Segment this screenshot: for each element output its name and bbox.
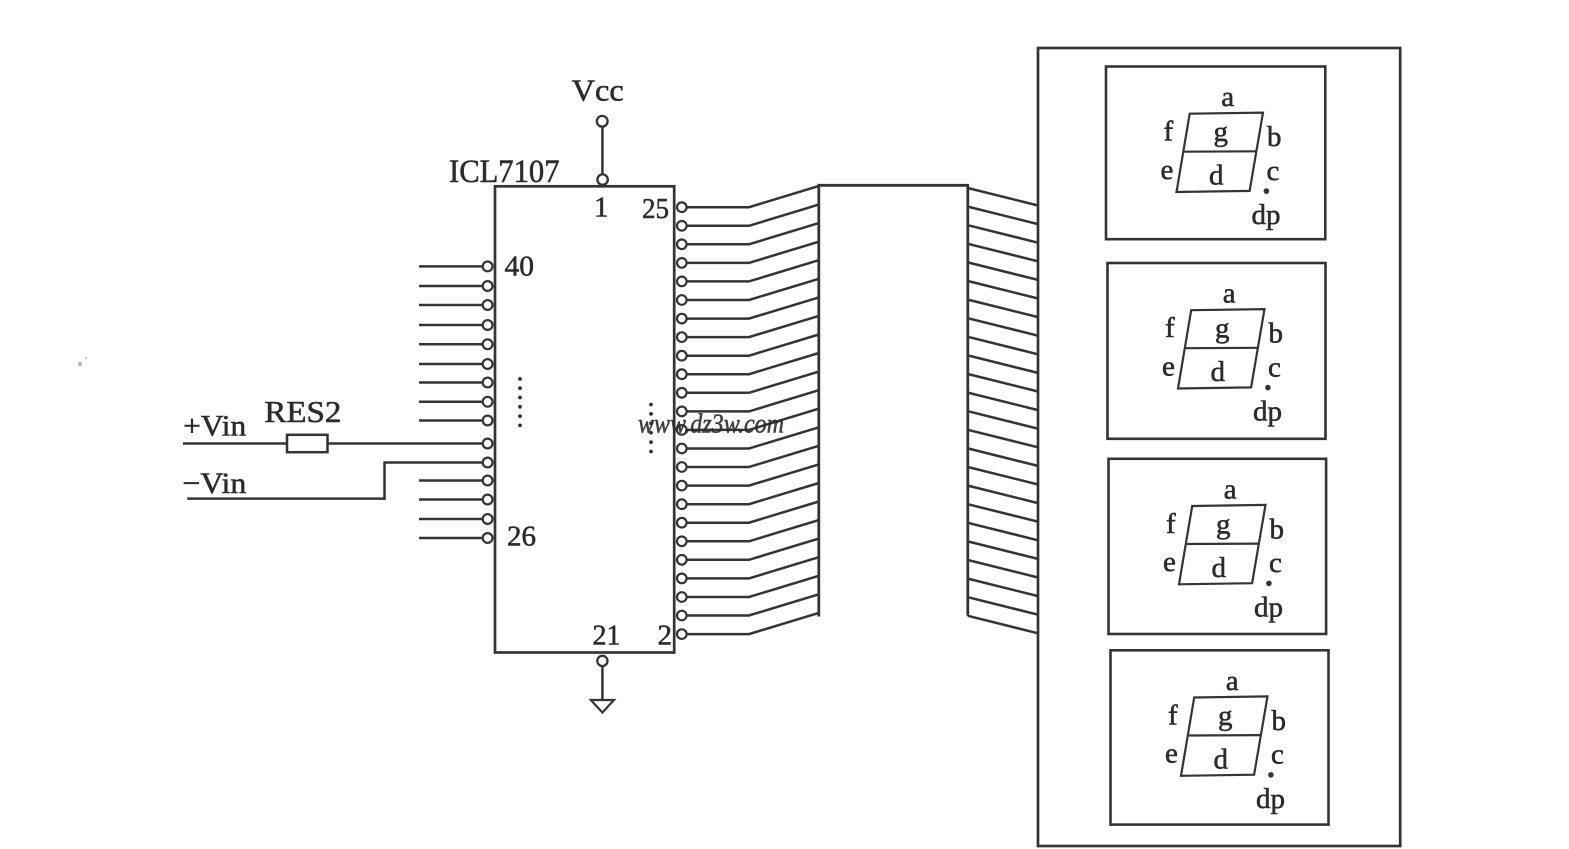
pin 27 terminal circle (left side) bbox=[483, 514, 493, 524]
wire cable to display segment line 1 bbox=[968, 188, 1038, 206]
wire Vcc to pin 1 bbox=[601, 127, 604, 174]
svg-text:25: 25 bbox=[642, 193, 669, 225]
7-segment display DS3 segment g divider bbox=[1187, 542, 1259, 545]
wire cable to display segment line 2 bbox=[968, 207, 1038, 225]
wire stub pin 38 bbox=[419, 304, 483, 307]
svg-text:www.dz3w.com: www.dz3w.com bbox=[638, 409, 784, 439]
svg-text:e: e bbox=[1165, 738, 1178, 770]
svg-text:40: 40 bbox=[505, 251, 535, 283]
wire pin 19 to cable bbox=[687, 297, 819, 318]
svg-text:d: d bbox=[1211, 356, 1226, 388]
7-segment display DS4 segment g divider bbox=[1189, 734, 1261, 737]
7-segment display DS1 segment g divider bbox=[1184, 150, 1256, 153]
svg-text:b: b bbox=[1270, 513, 1285, 545]
svg-text:f: f bbox=[1164, 116, 1174, 148]
pin 36 terminal circle (left side) bbox=[483, 339, 493, 349]
wire cable to display segment line 4 bbox=[968, 244, 1038, 261]
wire stub pin 28 bbox=[419, 498, 483, 501]
wire pin 21 to ground bbox=[601, 666, 604, 700]
wire cable to display segment line 14 bbox=[968, 430, 1038, 448]
pin 32 terminal circle (left side) bbox=[483, 416, 493, 426]
wire stub pin 34 bbox=[419, 381, 483, 384]
svg-text:c: c bbox=[1269, 547, 1282, 579]
resistor R1 (RES2) body bbox=[287, 435, 328, 452]
svg-text:f: f bbox=[1165, 312, 1175, 344]
wire pin 7 to cable bbox=[687, 520, 819, 541]
svg-text:dp: dp bbox=[1254, 591, 1283, 623]
wire cable to display segment line 10 bbox=[968, 355, 1038, 373]
7-segment display DS1 box bbox=[1106, 67, 1325, 240]
svg-text:f: f bbox=[1168, 699, 1178, 731]
wire pin 18 to cable bbox=[687, 316, 819, 337]
svg-text:e: e bbox=[1163, 546, 1176, 578]
svg-text:1: 1 bbox=[594, 192, 609, 224]
svg-text:g: g bbox=[1216, 508, 1231, 540]
7-segment display DS1 segment outline bbox=[1177, 113, 1264, 192]
wire pin 23 to cable bbox=[687, 223, 819, 244]
wire stub pin 33 bbox=[419, 401, 483, 404]
wire pin 15 to cable bbox=[687, 372, 819, 393]
wire pin 9 to cable bbox=[687, 483, 819, 504]
pin 8 terminal circle (right side) bbox=[677, 518, 687, 528]
wire cable to display segment line 7 bbox=[968, 300, 1038, 318]
wire pin 25 to cable bbox=[687, 186, 819, 207]
pin 40 terminal circle (left side) bbox=[483, 262, 493, 272]
ellipsis dots left pin group bbox=[518, 377, 522, 381]
ellipsis dots right pin group bbox=[649, 403, 653, 407]
pin 30 terminal circle (left side) bbox=[483, 458, 493, 468]
wire pin 12 to cable bbox=[687, 427, 819, 448]
svg-text:c: c bbox=[1271, 739, 1284, 771]
pin 3 terminal circle (right side) bbox=[677, 611, 687, 621]
wire pin 4 to cable bbox=[687, 576, 819, 597]
svg-text:dp: dp bbox=[1253, 396, 1282, 428]
svg-text:+Vin: +Vin bbox=[183, 410, 246, 443]
pin 12 terminal circle (right side) bbox=[677, 444, 687, 454]
pin 28 terminal circle (left side) bbox=[483, 495, 493, 505]
wire cable to display segment line 13 bbox=[968, 411, 1038, 429]
DS3 decimal point dot bbox=[1266, 581, 1272, 587]
svg-text:ICL7107: ICL7107 bbox=[449, 154, 560, 190]
pin 29 terminal circle (left side) bbox=[483, 476, 493, 486]
svg-text:e: e bbox=[1161, 154, 1174, 186]
pin 5 terminal circle (right side) bbox=[677, 574, 687, 584]
wire cable to display segment line 18 bbox=[968, 504, 1038, 522]
wire stub pin 37 bbox=[419, 324, 483, 327]
pin 25 terminal circle (right side) bbox=[677, 202, 687, 212]
wire cable to display segment line 5 bbox=[968, 262, 1038, 280]
pin 20 terminal circle (right side) bbox=[677, 295, 687, 305]
wire stub pin 29 bbox=[419, 479, 483, 482]
svg-text:b: b bbox=[1267, 121, 1282, 153]
wire stub pin 40 bbox=[419, 265, 483, 268]
svg-text:e: e bbox=[1162, 350, 1175, 382]
wire pin 21 to cable bbox=[687, 260, 819, 281]
7-segment display DS4 box bbox=[1111, 650, 1329, 824]
pin 16 terminal circle (right side) bbox=[677, 369, 687, 379]
wire pin 11 to cable bbox=[687, 446, 819, 467]
wire resistor to pin 31 bbox=[328, 442, 483, 445]
pin 6 terminal circle (right side) bbox=[677, 555, 687, 565]
wire cable to display segment line 3 bbox=[968, 225, 1038, 243]
wire stub pin 36 bbox=[419, 343, 483, 346]
Vcc terminal circle bbox=[597, 116, 608, 127]
wire stub pin 32 bbox=[419, 419, 483, 422]
pin 11 terminal circle (right side) bbox=[677, 462, 687, 472]
wire cable to display segment line 21 bbox=[968, 560, 1038, 578]
svg-text:b: b bbox=[1272, 705, 1287, 737]
DS2 decimal point dot bbox=[1265, 385, 1271, 391]
wire pin 3 to cable bbox=[687, 594, 819, 615]
DS1 decimal point dot bbox=[1264, 188, 1270, 194]
7-segment display DS2 segment g divider bbox=[1186, 347, 1258, 350]
pin 21 terminal circle bbox=[597, 656, 607, 666]
pin 34 terminal circle (left side) bbox=[483, 378, 493, 388]
svg-text:2: 2 bbox=[658, 620, 673, 652]
wire cable to display segment line 12 bbox=[968, 393, 1038, 411]
7-segment display DS2 box bbox=[1108, 263, 1326, 439]
wire pin 6 to cable bbox=[687, 539, 819, 560]
wire pin 13 to cable bbox=[687, 409, 819, 430]
svg-text:21: 21 bbox=[593, 620, 621, 652]
7-segment display DS3 box bbox=[1109, 459, 1327, 634]
wire cable left rail bbox=[817, 185, 820, 616]
svg-text:dp: dp bbox=[1252, 199, 1281, 231]
pin 22 terminal circle (right side) bbox=[677, 258, 687, 268]
wire cable to display segment line 9 bbox=[968, 337, 1038, 355]
wire stub pin 39 bbox=[419, 285, 483, 288]
wire pin 16 to cable bbox=[687, 353, 819, 374]
wire +Vin to resistor bbox=[183, 442, 287, 445]
wire cable to display segment line 15 bbox=[968, 448, 1038, 466]
wire stub pin 35 bbox=[419, 363, 483, 366]
pin 2 terminal circle (right side) bbox=[677, 629, 687, 639]
pin 7 terminal circle (right side) bbox=[677, 537, 687, 547]
pin 21 terminal circle (right side) bbox=[677, 277, 687, 287]
pin 31 terminal circle (left side) bbox=[483, 439, 493, 449]
svg-text:dp: dp bbox=[1256, 783, 1285, 815]
svg-text:d: d bbox=[1214, 743, 1229, 775]
svg-text:d: d bbox=[1212, 552, 1227, 584]
wire pin 20 to cable bbox=[687, 279, 819, 300]
svg-text:Vcc: Vcc bbox=[572, 73, 624, 108]
wire pin 10 to cable bbox=[687, 464, 819, 485]
pin 33 terminal circle (left side) bbox=[483, 397, 493, 407]
wire cable to display segment line 17 bbox=[968, 486, 1038, 504]
7-segment display DS2 segment outline bbox=[1178, 309, 1265, 388]
pin 38 terminal circle (left side) bbox=[483, 300, 493, 310]
pin 26 terminal circle (left side) bbox=[483, 533, 493, 543]
svg-text:a: a bbox=[1221, 81, 1234, 113]
wire cable to display segment line 24 bbox=[968, 616, 1038, 634]
svg-text:g: g bbox=[1215, 313, 1230, 345]
svg-text:f: f bbox=[1166, 508, 1176, 540]
pin 17 terminal circle (right side) bbox=[677, 351, 687, 361]
pin 23 terminal circle (right side) bbox=[677, 240, 687, 250]
7-segment display DS4 segment outline bbox=[1181, 696, 1268, 775]
svg-text:g: g bbox=[1218, 700, 1233, 732]
pin 18 terminal circle (right side) bbox=[677, 332, 687, 342]
7-segment display DS3 segment outline bbox=[1179, 505, 1266, 584]
pin 37 terminal circle (left side) bbox=[483, 320, 493, 330]
wire stub pin 26 bbox=[419, 537, 483, 540]
svg-text:−Vin: −Vin bbox=[182, 467, 246, 500]
svg-text:g: g bbox=[1214, 116, 1229, 148]
wire cable to display segment line 11 bbox=[968, 374, 1038, 392]
pin 35 terminal circle (left side) bbox=[483, 359, 493, 369]
wire pin 2 to cable bbox=[687, 613, 819, 634]
wire pin 5 to cable bbox=[687, 557, 819, 578]
wire pin 24 to cable bbox=[687, 205, 819, 226]
wire cable to display segment line 23 bbox=[968, 597, 1038, 615]
wire cable to display segment line 22 bbox=[968, 579, 1038, 597]
svg-text:26: 26 bbox=[507, 521, 536, 553]
pin 14 terminal circle (right side) bbox=[677, 407, 687, 417]
svg-text:a: a bbox=[1224, 473, 1237, 505]
pin 39 terminal circle (left side) bbox=[483, 281, 493, 291]
pin 1 terminal circle bbox=[597, 174, 607, 184]
wire -Vin horizontal bbox=[187, 497, 385, 500]
wire -Vin to pin 30 bbox=[385, 461, 483, 464]
wire pin 14 to cable bbox=[687, 390, 819, 411]
pin 13 terminal circle (right side) bbox=[677, 425, 687, 435]
wire cable to display segment line 19 bbox=[968, 523, 1038, 541]
op-amp U1 : ICL7107 A/D converter IC body bbox=[495, 186, 674, 652]
svg-text:d: d bbox=[1209, 160, 1224, 192]
svg-text:c: c bbox=[1267, 155, 1280, 187]
svg-text:c: c bbox=[1268, 351, 1281, 383]
wire cable right rail bbox=[966, 185, 969, 616]
ground bbox=[591, 700, 614, 713]
wire cable to display segment line 8 bbox=[968, 318, 1038, 336]
wire cable to display segment line 6 bbox=[968, 281, 1038, 299]
wire cable top run bbox=[818, 184, 970, 187]
wire stub pin 27 bbox=[419, 518, 483, 521]
pin 24 terminal circle (right side) bbox=[677, 221, 687, 231]
svg-text:a: a bbox=[1226, 665, 1239, 697]
svg-text:b: b bbox=[1269, 318, 1284, 350]
wire -Vin vertical jog bbox=[383, 461, 386, 499]
pin 9 terminal circle (right side) bbox=[677, 499, 687, 509]
pin 15 terminal circle (right side) bbox=[677, 388, 687, 398]
wire pin 22 to cable bbox=[687, 242, 819, 263]
pin 4 terminal circle (right side) bbox=[677, 592, 687, 602]
wire cable to display segment line 16 bbox=[968, 467, 1038, 485]
svg-text:RES2: RES2 bbox=[264, 394, 341, 429]
pin 10 terminal circle (right side) bbox=[677, 481, 687, 491]
wire pin 8 to cable bbox=[687, 502, 819, 523]
pin 19 terminal circle (right side) bbox=[677, 314, 687, 324]
svg-text:a: a bbox=[1223, 278, 1236, 310]
LED display assembly outer box bbox=[1038, 48, 1400, 846]
wire cable to display segment line 20 bbox=[968, 541, 1038, 559]
wire pin 17 to cable bbox=[687, 335, 819, 356]
DS4 decimal point dot bbox=[1268, 772, 1274, 778]
